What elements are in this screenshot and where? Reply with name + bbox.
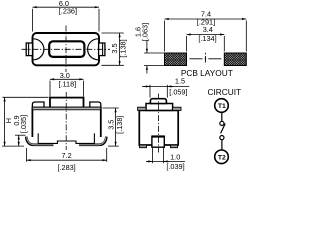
- side top boss: [146, 104, 173, 111]
- front bottom notch right vertical: [93, 133, 95, 143]
- seating plane ext: [2, 145, 24, 147]
- side bottom boss top thick edge: [152, 135, 164, 137]
- dim 6.0 line: [33, 6, 100, 8]
- front left post: [32, 102, 44, 108]
- svg-text:[.236]: [.236]: [59, 6, 77, 15]
- button (top view): [49, 41, 84, 57]
- dim 3.4 ext lines: [186, 36, 188, 52]
- svg-text:1.5: 1.5: [175, 76, 185, 85]
- svg-text:[.283]: [.283]: [57, 163, 75, 172]
- dim H line: [4, 97, 6, 146]
- dim 1.0 left arrow: [147, 160, 153, 162]
- dim 1.6 ext lines: [144, 52, 165, 54]
- dim 3.5 front line: [115, 108, 117, 146]
- svg-text:[.118]: [.118]: [58, 80, 76, 89]
- dim 3.0 line: [50, 78, 84, 80]
- side tab bottom-right: [171, 145, 178, 148]
- svg-text:3.0: 3.0: [60, 71, 70, 80]
- left dome: [33, 39, 44, 60]
- dim 6.0 extension lines: [32, 9, 34, 32]
- right pad: [224, 53, 246, 66]
- wire T1 to contact: [221, 113, 223, 121]
- dim 3.5 top view ext lines: [102, 32, 124, 34]
- front bottom edge with boss plateau: [38, 141, 94, 143]
- dim 3.5 top view line: [119, 33, 121, 65]
- dim 3.5 front ext top: [103, 107, 119, 109]
- dim 1.5 right arrow: [167, 85, 173, 87]
- front bottom notch left vertical: [37, 133, 39, 143]
- dim 3.0 ext lines down to front cap: [49, 81, 51, 97]
- terminal T1 circle: [215, 99, 229, 113]
- svg-text:[.138]: [.138]: [119, 39, 128, 57]
- dim 7.4 ext lines: [164, 21, 166, 52]
- wire contact to T2: [221, 140, 223, 150]
- front body: [32, 108, 100, 138]
- front right post: [90, 102, 101, 108]
- svg-text:CIRCUIT: CIRCUIT: [207, 87, 241, 97]
- side tab top-right: [173, 107, 181, 110]
- right terminal: [99, 43, 105, 56]
- svg-text:[.134]: [.134]: [198, 34, 216, 43]
- dim 7.2 line: [27, 159, 107, 161]
- dim 1.5 line: [142, 85, 189, 87]
- svg-text:[.059]: [.059]: [169, 87, 187, 96]
- front cap: [50, 98, 84, 109]
- side tab top-left: [138, 107, 146, 110]
- left pad: [165, 53, 187, 66]
- side tab bottom-left: [140, 145, 147, 148]
- svg-text:1.0: 1.0: [170, 153, 180, 162]
- pcb center line horizontal: [190, 58, 222, 60]
- svg-text:3.5: 3.5: [106, 120, 115, 130]
- svg-text:[.039]: [.039]: [166, 162, 184, 171]
- horizontal center line top view: [22, 48, 111, 50]
- dim 1.6 arrow bottom: [146, 66, 148, 74]
- upper contact circle: [220, 121, 224, 125]
- svg-text:[.138]: [.138]: [115, 116, 124, 134]
- dim 0.9 line: [18, 135, 20, 146]
- dim 0.9 ext top: [15, 134, 26, 136]
- right dome: [88, 39, 98, 60]
- switch blade: [221, 124, 226, 134]
- left lead foot: [26, 137, 53, 145]
- dim 1.0 ext lines: [151, 148, 153, 163]
- svg-text:T2: T2: [218, 154, 226, 161]
- dim 1.0 line: [146, 160, 185, 162]
- svg-text:T1: T1: [218, 103, 226, 110]
- svg-text:[.035]: [.035]: [19, 115, 28, 133]
- dim 1.5 ext lines: [149, 85, 151, 98]
- terminal T2 circle: [215, 150, 229, 164]
- side center line: [158, 94, 160, 153]
- dim 3.5 front ext bottom: [108, 145, 119, 147]
- front center line: [65, 92, 67, 150]
- dim 1.5 left arrow: [144, 85, 151, 87]
- vertical center line top view: [65, 26, 67, 73]
- dim H ext top: [3, 96, 49, 98]
- dim 7.2 ext lines: [26, 148, 28, 162]
- dim 3.4 line: [187, 34, 225, 36]
- dim 1.6 arrow top: [146, 41, 148, 54]
- side bottom boss: [152, 136, 164, 147]
- svg-text:PCB LAYOUT: PCB LAYOUT: [181, 68, 233, 78]
- left terminal: [26, 43, 32, 56]
- front body top metal band: [32, 107, 100, 110]
- top view body: [33, 33, 100, 65]
- svg-text:3.4: 3.4: [203, 25, 213, 34]
- side body: [139, 110, 178, 145]
- pcb center line vertical: [204, 53, 206, 64]
- dim 7.4 line: [165, 18, 247, 20]
- dim 1.0 right arrow: [164, 160, 170, 162]
- svg-text:7.2: 7.2: [62, 151, 72, 160]
- right lead foot: [79, 137, 106, 145]
- svg-text:[.063]: [.063]: [141, 23, 150, 41]
- side button: [150, 99, 166, 104]
- lower contact circle: [220, 136, 224, 140]
